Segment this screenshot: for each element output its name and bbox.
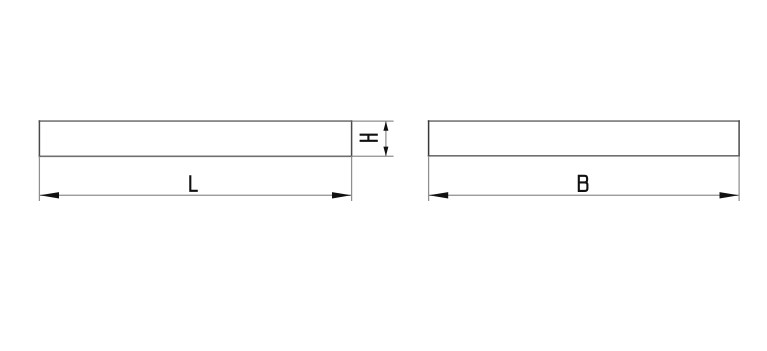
label B bbox=[578, 175, 588, 192]
arrowhead B right bbox=[720, 192, 739, 198]
extension line L left bbox=[38, 156, 40, 201]
dimension line L bbox=[39, 194, 351, 196]
dimension line B bbox=[429, 194, 739, 196]
label L bbox=[190, 175, 198, 191]
extension line H top bbox=[352, 120, 394, 122]
part outline: right bar (front view) bbox=[428, 120, 740, 156]
arrowhead H bottom bbox=[383, 147, 388, 157]
arrowhead L left bbox=[40, 192, 59, 198]
dimension line H bbox=[385, 121, 387, 156]
arrowhead H top bbox=[383, 121, 388, 131]
extension line H bottom bbox=[352, 155, 394, 157]
arrowhead L right bbox=[332, 192, 351, 198]
extension line L right bbox=[351, 156, 353, 201]
part outline: left bar (side view) bbox=[39, 120, 353, 157]
arrowhead B left bbox=[429, 192, 448, 198]
label H (rotated) bbox=[360, 135, 378, 141]
extension line B left bbox=[428, 156, 430, 201]
extension line B right bbox=[738, 156, 740, 201]
